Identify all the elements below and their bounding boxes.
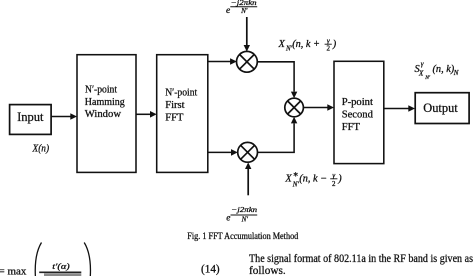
wire fft to bottom multiplier — [208, 149, 238, 156]
wire bottom label to M2 — [245, 162, 251, 195]
wire M1 to center multiplier — [257, 62, 297, 98]
node X(n) label — [32, 143, 50, 154]
first fft block — [157, 55, 208, 173]
svg-text:): ) — [337, 174, 342, 185]
second fft block — [334, 61, 384, 163]
node label X*_N'(n,k-y/2) — [284, 171, 342, 189]
svg-text:(14): (14) — [201, 263, 220, 275]
svg-text:N: N — [453, 69, 459, 77]
svg-text:γ: γ — [421, 60, 424, 68]
svg-text:e: e — [226, 6, 230, 16]
svg-text:Fig. 1 FFT Accumulation Method: Fig. 1 FFT Accumulation Method — [187, 232, 298, 242]
node label S^y_XN'(n,k)_N — [415, 60, 459, 81]
svg-text:(n, k −: (n, k − — [299, 174, 327, 185]
equation number (14) — [201, 263, 220, 275]
svg-text:X: X — [418, 70, 424, 78]
svg-text:First: First — [165, 100, 184, 111]
wire second fft to output — [384, 105, 415, 112]
bottom exponential label e^(-j2pikn/N') — [226, 206, 257, 224]
svg-text:(n, k +: (n, k + — [292, 39, 320, 50]
svg-text:−j2πkn: −j2πkn — [231, 206, 257, 214]
svg-text:N′: N′ — [241, 216, 249, 224]
svg-text:t′(α): t′(α) — [52, 262, 70, 271]
wire hamming to fft — [136, 111, 157, 118]
svg-text:The signal format of 802.11a i: The signal format of 802.11a in the RF b… — [249, 253, 473, 265]
multiplier M3 (center) — [285, 98, 304, 117]
svg-text:X: X — [284, 174, 292, 185]
svg-text:X: X — [278, 39, 286, 50]
output box — [415, 93, 469, 124]
wire M2 to center multiplier — [258, 117, 298, 153]
svg-text:Hamming: Hamming — [85, 97, 126, 108]
svg-text:P-point: P-point — [342, 97, 373, 108]
top exponential label e^(-j2pikn/N') — [226, 0, 257, 16]
svg-text:2: 2 — [332, 180, 336, 188]
svg-text:N′-point: N′-point — [165, 87, 197, 98]
body paragraph — [249, 253, 473, 276]
input box — [10, 105, 52, 135]
svg-text:Second: Second — [342, 109, 374, 120]
svg-text:e: e — [226, 213, 230, 223]
svg-text:2: 2 — [326, 44, 330, 52]
svg-text:Input: Input — [17, 110, 44, 124]
equation (14) left fragment — [0, 243, 90, 276]
svg-text:−j2πkn: −j2πkn — [231, 0, 257, 7]
svg-text:(n, k): (n, k) — [433, 64, 455, 75]
wire fft to top multiplier — [208, 58, 237, 65]
svg-text:FFT: FFT — [165, 112, 184, 123]
svg-text:FFT: FFT — [342, 122, 361, 133]
svg-text:N′: N′ — [424, 75, 431, 81]
wire top label to M1 — [244, 17, 250, 52]
svg-text:= max: = max — [0, 266, 27, 276]
node label X_N'(n,k+y/2) — [278, 37, 337, 53]
figure caption — [187, 232, 298, 242]
svg-text:Window: Window — [85, 109, 122, 120]
svg-text:∗: ∗ — [293, 171, 299, 179]
hamming window block — [77, 55, 136, 173]
svg-text:N′-point: N′-point — [85, 85, 117, 96]
svg-text:N′: N′ — [292, 180, 300, 188]
svg-text:X(n): X(n) — [32, 143, 50, 154]
svg-text:follows.: follows. — [249, 265, 286, 276]
multiplier M1 (top) — [237, 51, 258, 72]
wire center multiplier to second fft — [303, 104, 334, 111]
wire input to hamming — [51, 113, 77, 120]
multiplier M2 (bottom) — [238, 142, 258, 162]
svg-text:Output: Output — [423, 100, 458, 115]
svg-text:): ) — [332, 39, 337, 50]
svg-text:N′: N′ — [240, 7, 248, 15]
